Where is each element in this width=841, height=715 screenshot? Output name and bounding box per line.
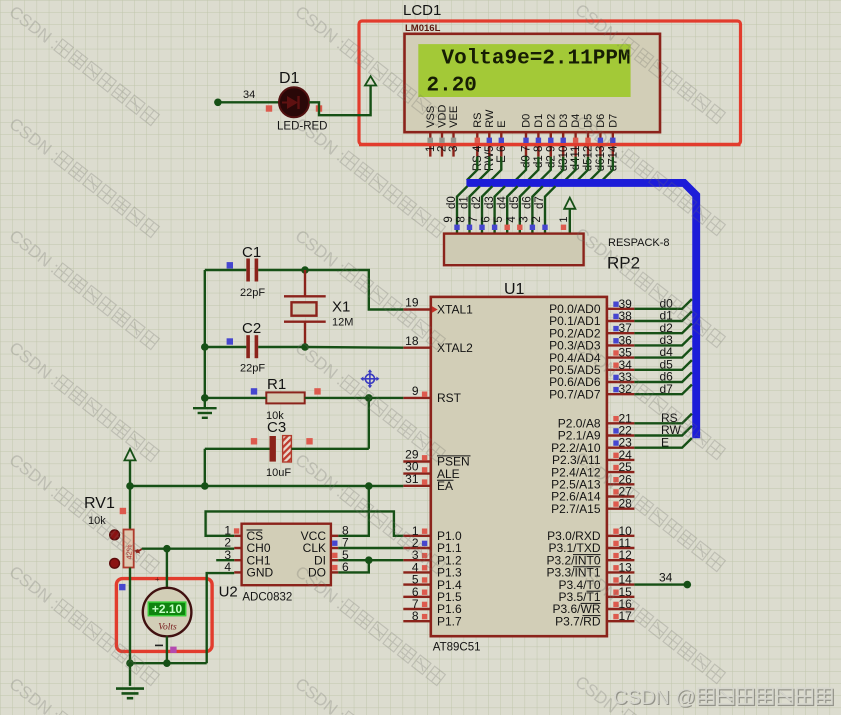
U1 right pin squares [613, 302, 618, 620]
svg-text:VEE: VEE [448, 106, 460, 128]
svg-text:9: 9 [443, 216, 455, 222]
wires bus to RP2 pins 9..2 [457, 186, 555, 233]
svg-text:D3: D3 [558, 114, 570, 128]
svg-text:ADC0832: ADC0832 [242, 592, 292, 604]
label ADC0832 [242, 592, 292, 604]
U1 left pin stubs [403, 310, 431, 622]
svg-text:R1: R1 [267, 376, 286, 393]
svg-text:d4: d4 [496, 196, 508, 209]
pin mark C1 [227, 262, 233, 268]
LCD pin stubs [430, 132, 613, 156]
selection box around LCD1 [359, 21, 741, 144]
wire VCC up to rail [338, 486, 369, 536]
U2 pin squares [234, 528, 338, 570]
U2 pin names [247, 529, 327, 580]
svg-text:2.20: 2.20 [427, 75, 477, 98]
svg-text:8: 8 [412, 609, 419, 623]
wires LCD RS,RW,E,D0-D7 to bus [467, 157, 613, 181]
svg-text:3: 3 [518, 216, 530, 222]
svg-text:10uF: 10uF [266, 467, 291, 479]
svg-text:12M: 12M [332, 317, 353, 329]
wire CLK to P1.1 [338, 547, 403, 549]
resistor R1 [266, 392, 304, 403]
svg-text:Volta9e=2.11PPM: Volta9e=2.11PPM [442, 48, 631, 71]
junction wiper/meter [163, 545, 171, 553]
svg-text:6: 6 [481, 216, 493, 222]
svg-text:19: 19 [405, 296, 419, 310]
label LM016L [405, 23, 441, 34]
wire CS to P1.0 [206, 511, 404, 535]
wire CH1 stub [216, 559, 234, 561]
label U2 [219, 584, 238, 601]
label X1 [332, 299, 350, 316]
origin marker (crosshair) [360, 369, 379, 388]
svg-text:D7: D7 [607, 114, 619, 128]
label 10uF [266, 467, 291, 479]
svg-text:D1: D1 [533, 114, 545, 128]
wire C1 right to X1 top [258, 269, 305, 271]
pin mark meter minus [170, 647, 176, 653]
wire ground rail vertical (caps) [204, 270, 206, 398]
svg-text:34: 34 [659, 571, 673, 585]
svg-text:CSDN @: CSDN @ [613, 687, 696, 709]
resistor pack RP2 body [444, 234, 584, 266]
wire X1 top to XTAL1 [305, 270, 403, 310]
junction rail / ADC VCC [365, 482, 373, 490]
junction X1 bottom [301, 343, 309, 351]
label 22pF (C2) [240, 363, 265, 375]
U1 left pin names [437, 303, 473, 629]
pin mark RV1 top [120, 508, 126, 514]
svg-text:1: 1 [425, 146, 437, 152]
wire C3 left [205, 448, 270, 450]
bus (data/control) [466, 183, 696, 438]
wire meter bottom rail [130, 662, 207, 664]
wire C3 right up to RST node [368, 398, 370, 449]
wire C3 left down to +5V rail [204, 449, 206, 486]
ground (crystal/R1) [193, 398, 217, 418]
svg-text:C2: C2 [242, 320, 261, 337]
svg-text:U2: U2 [219, 584, 238, 601]
RP2 pin1 square [561, 225, 566, 230]
wire +5V rail to EA [130, 485, 403, 487]
selection box bottom edge over stubs [359, 143, 741, 146]
svg-text:RS: RS [472, 113, 484, 128]
svg-text:5: 5 [493, 216, 505, 222]
label AT89C51 [433, 642, 481, 654]
svg-text:3: 3 [448, 146, 460, 152]
svg-text:LCD1: LCD1 [403, 2, 441, 19]
LCD pin name labels [425, 105, 620, 128]
svg-text:X1: X1 [332, 299, 350, 316]
LED D1 [279, 87, 309, 117]
svg-text:d7: d7 [660, 382, 674, 396]
pin mark R1 right [314, 388, 320, 394]
junction R1-left / ground [201, 394, 209, 402]
svg-text:d1: d1 [459, 196, 471, 209]
label C2 [242, 320, 261, 337]
svg-text:E: E [661, 435, 669, 449]
svg-text:8: 8 [456, 216, 468, 222]
svg-text:+2.10: +2.10 [152, 602, 183, 616]
label 12M [332, 317, 353, 329]
U1 right pin names [546, 302, 600, 628]
junction rail left [126, 482, 134, 490]
pin mark C2 [227, 338, 233, 344]
crystal X1 [284, 270, 326, 347]
label R1 [267, 376, 286, 393]
junction meter bottom [163, 659, 171, 667]
svg-text:2: 2 [437, 146, 449, 152]
label 10k (RV1) [88, 515, 106, 527]
U1 right pin numbers [619, 297, 633, 623]
wire RV1 wiper to ADC CH0 [142, 548, 235, 550]
capacitor C1 [246, 259, 258, 282]
wire R1 right to RST [305, 397, 404, 399]
voltmeter body [143, 575, 192, 645]
node 34 (left) [214, 99, 222, 107]
potentiometer RV1 [110, 530, 143, 569]
junction rail / C3 [201, 482, 209, 490]
svg-text:d3: d3 [484, 196, 496, 209]
label 10k (R1) [266, 410, 284, 422]
wire DI to P1.2 [338, 559, 403, 561]
wire +5V to RP2 pin1 [569, 210, 571, 234]
power +5V (near LCD) [365, 76, 376, 85]
label RP2 [607, 254, 640, 273]
pin mark R1 left [251, 388, 257, 394]
wire RV1 bottom to ground [129, 568, 131, 686]
wire net 34 from P3.4 [634, 583, 687, 585]
svg-text:RST: RST [437, 391, 462, 405]
svg-text:D0: D0 [521, 114, 533, 128]
label U1 [504, 281, 525, 298]
svg-text:AT89C51: AT89C51 [433, 642, 481, 654]
svg-text:XTAL1: XTAL1 [437, 303, 473, 317]
watermark bottom right [613, 687, 833, 710]
svg-text:d5: d5 [509, 196, 521, 209]
power +5V (RP2) [564, 198, 575, 209]
wire meter - down [166, 636, 168, 663]
svg-text:2: 2 [531, 216, 543, 222]
svg-text:d7: d7 [534, 196, 546, 209]
svg-text:+: + [155, 575, 160, 584]
LCD pin state squares [428, 138, 616, 143]
svg-text:C1: C1 [242, 244, 261, 261]
svg-text:d0: d0 [446, 196, 458, 209]
U1 right pin stubs [607, 309, 635, 621]
svg-text:EA: EA [437, 479, 453, 493]
net labels d0-d7 at U1 [660, 296, 674, 395]
svg-text:d6: d6 [522, 196, 534, 209]
svg-text:4: 4 [224, 560, 231, 574]
svg-text:P0.7/AD7: P0.7/AD7 [549, 387, 601, 401]
svg-text:U1: U1 [504, 281, 525, 298]
svg-text:22pF: 22pF [240, 363, 265, 375]
pin mark D1 anode [266, 105, 272, 111]
junction RV1/meter bottom [126, 659, 134, 667]
selection box around voltmeter [116, 579, 212, 652]
svg-text:C3: C3 [267, 419, 286, 436]
LCD screen [418, 44, 630, 97]
svg-text:P2.7/A15: P2.7/A15 [551, 502, 601, 516]
pin mark C3 left [251, 438, 257, 444]
svg-text:D2: D2 [545, 114, 557, 128]
RP2 pin 1 number [558, 216, 570, 222]
junction DI/DO [365, 556, 373, 564]
pin mark D1 cathode [316, 105, 322, 111]
wire up to ADC GND [207, 573, 235, 663]
U1 left pin numbers [405, 296, 419, 624]
label D1 [279, 70, 300, 87]
wire DO join DI [338, 560, 369, 572]
svg-text:d2: d2 [471, 196, 483, 209]
ADC U2 body [242, 524, 331, 586]
label C3 [267, 419, 286, 436]
pin mark C3 right [306, 438, 312, 444]
wires U1 P2.0-P2.2 to bus (nets RS,RW,E) [634, 414, 692, 448]
LCD screen text [427, 48, 631, 98]
svg-text:E: E [496, 120, 508, 127]
net label 34 (right) [659, 571, 673, 585]
node 34 (right) [684, 581, 692, 589]
net label 34 [243, 89, 255, 101]
U1 left pin squares [422, 392, 427, 620]
net labels RS RW E at U1 [661, 411, 681, 449]
svg-text:P1.7: P1.7 [437, 614, 462, 628]
junction RST/C3 [365, 394, 373, 402]
junction C2-left [201, 343, 209, 351]
capacitor C3 (electrolytic) [270, 436, 292, 462]
label RV1 [84, 495, 115, 512]
wire C2 right to X1 bottom [258, 346, 305, 348]
LCD LM016L body [405, 34, 661, 132]
svg-text:34: 34 [243, 89, 255, 101]
ground (bottom) [116, 689, 144, 699]
svg-text:18: 18 [405, 334, 419, 348]
svg-text:9: 9 [412, 384, 419, 398]
svg-text:Volts: Volts [158, 623, 177, 633]
wire R1 left [205, 397, 266, 399]
svg-text:1: 1 [558, 216, 570, 222]
svg-text:GND: GND [247, 566, 274, 580]
U2 pin numbers [224, 523, 349, 574]
label LED-RED [277, 121, 327, 133]
svg-text:D1: D1 [279, 70, 300, 87]
wire D1 cathode to +5V arrow [309, 86, 371, 116]
wire rail to RV1 top [129, 486, 131, 530]
svg-text:4: 4 [506, 216, 518, 223]
U1 XTAL1 clock mark [432, 306, 438, 313]
svg-text:31: 31 [405, 472, 419, 486]
svg-text:RW: RW [484, 109, 496, 128]
RP2 pin state squares [454, 225, 547, 230]
wire arrow to rail [129, 460, 131, 486]
svg-text:10k: 10k [88, 515, 106, 527]
RP2 pin numbers 9..2 [443, 216, 543, 223]
svg-text:RV1: RV1 [84, 495, 115, 512]
label C1 [242, 244, 261, 261]
pin mark meter box [119, 584, 125, 590]
capacitor C2 [246, 335, 258, 358]
label 22pF (C1) [240, 287, 265, 299]
junction X1 top [301, 266, 309, 274]
wire C2 left [205, 346, 247, 348]
power +5V (rail) [124, 449, 135, 461]
svg-text:P3.7/RD: P3.7/RD [555, 614, 601, 628]
wire X1 bottom to XTAL2 [305, 346, 403, 349]
svg-text:RESPACK-8: RESPACK-8 [608, 237, 670, 249]
LCD pin number labels [425, 145, 620, 171]
wire net 34 to D1 anode [218, 101, 280, 103]
svg-text:7: 7 [468, 216, 480, 222]
svg-text:22pF: 22pF [240, 287, 265, 299]
U2 pin stubs [234, 536, 338, 573]
MCU U1 body [431, 297, 607, 636]
wires U1 P0.0-P0.7 to bus (nets d0-d7) [634, 299, 692, 394]
svg-text:LM016L: LM016L [405, 23, 441, 34]
RP2 net labels d0-d7 [446, 196, 546, 209]
label LCD1 [403, 2, 441, 19]
wire C3 right [291, 448, 368, 450]
wire to voltmeter + [166, 549, 168, 588]
wire C1 left [205, 269, 247, 271]
label RESPACK-8 [608, 237, 670, 249]
